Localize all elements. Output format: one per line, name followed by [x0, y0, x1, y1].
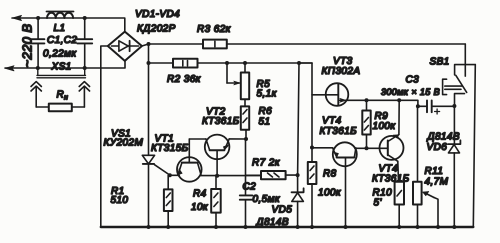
wire DC+ across top	[227, 43, 465, 45]
node R11 wiper on rail	[436, 225, 440, 229]
svg-text:5': 5'	[374, 198, 383, 209]
node gate VS1	[168, 173, 172, 177]
wire SB1 bottom	[455, 94, 465, 106]
svg-text:10к: 10к	[191, 202, 209, 213]
node R2 tap	[147, 61, 151, 65]
sensor SB1 contact diagonal	[456, 75, 467, 92]
sensor SB1 frame	[455, 65, 476, 75]
plug pins right	[79, 82, 89, 107]
resistor R2	[173, 59, 198, 68]
node R10 on rail	[397, 225, 401, 229]
svg-text:C2: C2	[243, 181, 257, 192]
capacitor C1	[30, 18, 45, 68]
svg-text:VD6: VD6	[427, 142, 448, 153]
wire DC+ top	[142, 44, 203, 46]
svg-text:510: 510	[111, 195, 129, 206]
node C3 left / R11 top	[416, 104, 420, 108]
svg-text:R7 2к: R7 2к	[252, 158, 281, 169]
resistor R3	[203, 40, 227, 49]
svg-text:КП302А: КП302А	[322, 66, 361, 77]
resistor R10	[395, 161, 404, 227]
node R5 top	[243, 61, 247, 65]
svg-text:4,7М: 4,7М	[425, 177, 449, 188]
svg-text:300мк × 15 В: 300мк × 15 В	[381, 87, 440, 97]
inductor L1	[47, 13, 73, 18]
FET VT3	[312, 83, 348, 106]
resistor Rn	[49, 104, 72, 112]
arrow AC top	[13, 15, 22, 20]
node C2 bottom	[83, 66, 87, 70]
wire anode VS1 column	[148, 44, 150, 155]
power marks R2	[183, 61, 188, 66]
node C1 top	[36, 16, 40, 20]
potentiometer R5	[227, 63, 249, 99]
power mark R3	[214, 41, 216, 46]
wire AC bottom	[5, 61, 125, 68]
thyristor VS1	[142, 155, 169, 227]
wire VT2 emitter row	[229, 138, 246, 140]
svg-text:C3: C3	[406, 75, 420, 86]
node R7 right on zener rail	[296, 173, 300, 177]
node VD6 on rail	[452, 225, 456, 229]
wire VT1 collector row	[201, 175, 261, 177]
svg-text:51: 51	[259, 117, 271, 128]
node VT4 emitter on rail	[344, 225, 348, 229]
resistor R8	[308, 148, 317, 228]
node VT4-2 emitter top	[397, 98, 401, 102]
resistor R7	[246, 171, 298, 179]
svg-text:КТ361Б: КТ361Б	[320, 126, 358, 137]
node DC+	[147, 42, 151, 46]
node VT2 base	[215, 174, 219, 178]
wire VT1 base to VT2 collector	[189, 138, 206, 140]
wiper R11	[423, 191, 438, 227]
sensor SB1 plate bracket	[443, 79, 447, 94]
corner gate branch from row	[299, 62, 312, 64]
wire gate branch	[311, 63, 313, 148]
bridge rectifier VD1-VD4	[108, 32, 142, 61]
node gate/R8/VT4 base	[310, 146, 314, 150]
svg-text:R6: R6	[259, 106, 273, 117]
sensor SB1 stem	[464, 44, 466, 76]
transistor VT4-2	[380, 135, 404, 162]
svg-text:КД202Р: КД202Р	[137, 24, 176, 35]
node VD6 top	[452, 104, 456, 108]
svg-text:КТ315Б: КТ315Б	[151, 143, 189, 154]
resistor R9	[362, 100, 370, 148]
capacitor C2 (mains)	[77, 18, 92, 68]
node R4 on rail	[214, 225, 218, 229]
node R9 bottom / VT4-2 base	[365, 146, 369, 150]
node VD5 on rail	[296, 225, 300, 229]
zener VD6	[448, 106, 460, 227]
svg-text:VD1-VD4: VD1-VD4	[135, 9, 180, 20]
svg-text:н: н	[64, 95, 68, 102]
svg-text:R3 62к: R3 62к	[197, 24, 232, 35]
transistor VT4-1	[333, 142, 357, 227]
wire VT3 source row	[348, 100, 418, 106]
svg-text:КТ361Б: КТ361Б	[202, 116, 240, 127]
svg-text:VD5: VD5	[272, 205, 293, 216]
svg-text:100к: 100к	[373, 121, 397, 132]
svg-text:0,22мк: 0,22мк	[43, 49, 77, 60]
node R8 on rail	[310, 225, 314, 229]
svg-text:КУ202М: КУ202М	[104, 138, 144, 149]
wire right rail	[473, 65, 475, 227]
wire VT4-1 collector to node	[355, 147, 388, 149]
wire R2 to zener rail	[198, 62, 313, 64]
svg-text:L1: L1	[54, 23, 66, 34]
svg-text:XS1: XS1	[51, 61, 72, 72]
svg-text:~220 В: ~220 В	[20, 24, 35, 68]
transistor VT2	[205, 135, 230, 176]
node C2 top column	[244, 137, 248, 141]
wire zener rail	[298, 63, 299, 192]
svg-text:VT4: VT4	[322, 116, 342, 127]
node R1 on rail	[166, 225, 170, 229]
connector XS1 lines	[37, 68, 86, 78]
core line of L1	[47, 11, 74, 13]
svg-text:R4: R4	[193, 189, 207, 200]
node C2 top	[83, 16, 87, 20]
node R9 top	[365, 98, 369, 102]
svg-text:R2 36к: R2 36к	[167, 74, 202, 85]
plug pins left	[31, 82, 41, 107]
svg-text:5,1к: 5,1к	[257, 89, 278, 100]
arrow AC bottom	[5, 66, 14, 71]
resistor R11	[413, 106, 422, 227]
wire node to VT4-1 base	[312, 147, 333, 149]
wire gate node to VT1 emitter	[170, 174, 180, 176]
wire AC top	[12, 18, 125, 32]
svg-text:R11: R11	[425, 166, 444, 177]
svg-text:SB1: SB1	[430, 57, 450, 68]
zener VD5	[292, 188, 304, 227]
capacitor C2	[240, 139, 253, 227]
node C2 on rail	[244, 225, 248, 229]
svg-text:0,5мк: 0,5мк	[253, 194, 281, 205]
node R5 wiper tap	[225, 61, 229, 65]
node C1 bottom	[36, 66, 40, 70]
svg-text:100к: 100к	[318, 188, 342, 199]
wire VT4-2 emitter up	[398, 100, 400, 134]
wire R2 row	[149, 62, 174, 64]
node R11 on rail	[416, 225, 420, 229]
svg-text:C1,C2: C1,C2	[47, 35, 77, 46]
node zener rail top	[297, 61, 301, 65]
wire ground rail	[101, 226, 474, 228]
svg-text:R: R	[57, 90, 65, 101]
resistor R4	[211, 176, 221, 227]
wire to Rn	[36, 106, 84, 108]
resistor R6	[241, 99, 249, 139]
sensor SB1 plate bars	[445, 86, 462, 89]
resistor R1	[164, 175, 173, 227]
transistor VT1	[177, 139, 202, 182]
node VS1 cathode on rail	[147, 225, 151, 229]
capacitor C3	[418, 100, 454, 114]
wire bridge left to ground rail	[101, 46, 108, 227]
bridge inner diode	[112, 41, 139, 51]
svg-text:R8: R8	[323, 169, 337, 180]
